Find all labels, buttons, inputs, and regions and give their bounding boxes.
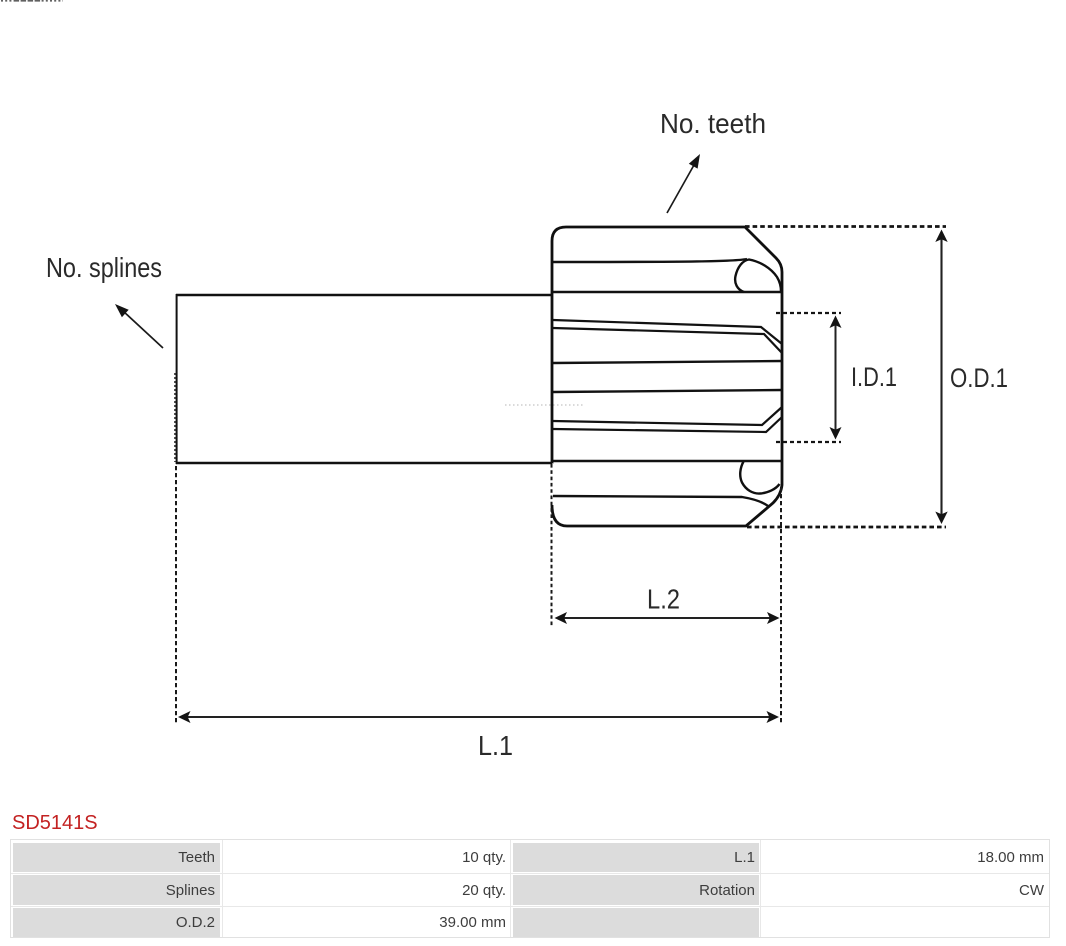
shaft bottom edge xyxy=(176,462,552,464)
bottom tooth face arc xyxy=(740,462,779,494)
top tooth face arc xyxy=(735,260,781,293)
svg-text:No. teeth: No. teeth xyxy=(660,108,766,139)
column separators xyxy=(222,840,223,937)
part number xyxy=(12,812,98,835)
shaft left edge solid xyxy=(176,294,178,464)
row 1 xyxy=(13,843,220,873)
L.2 arrowhead left xyxy=(555,612,568,624)
shaft left edge hidden dotted fringe xyxy=(174,373,176,462)
clipped watermark strip top-left xyxy=(1,0,63,2)
I.D.1 arrowhead bottom xyxy=(830,427,842,440)
L.1 arrowhead right xyxy=(767,711,780,723)
L.2 / L.1 shared extension line right xyxy=(780,487,782,724)
shaft top edge xyxy=(176,294,552,296)
O.D.1 arrowhead top xyxy=(935,230,947,243)
L.1 arrowhead left xyxy=(178,711,191,723)
O.D.1 extension line top xyxy=(745,225,946,228)
row 3 xyxy=(13,908,220,937)
spline groove lower line b xyxy=(553,417,782,432)
spline groove lower line a xyxy=(553,407,782,425)
tooth line t1 xyxy=(553,259,747,262)
tooth line t6 xyxy=(553,496,768,506)
svg-text:L.2: L.2 xyxy=(647,584,680,615)
O.D.1 extension line bottom xyxy=(747,526,946,529)
O.D.1 arrowhead bottom xyxy=(935,512,947,525)
No. teeth leader arrow xyxy=(667,165,694,213)
L.1 extension line left xyxy=(175,466,177,724)
O.D.1 dimension line xyxy=(940,237,942,517)
spline groove upper line a xyxy=(553,320,782,344)
centerline xyxy=(505,404,585,406)
specification table xyxy=(10,839,1050,938)
svg-text:O.D.1: O.D.1 xyxy=(950,363,1008,393)
I.D.1 extension line top xyxy=(776,312,841,314)
tooth line t2 xyxy=(553,291,782,293)
row 2 xyxy=(13,875,220,905)
L.2 extension line left / hidden gear edge xyxy=(551,464,553,626)
L.2 arrowhead right xyxy=(767,612,780,624)
I.D.1 extension line bottom xyxy=(776,441,841,443)
I.D.1 arrowhead top xyxy=(830,316,842,329)
gear body outline xyxy=(552,227,782,526)
svg-text:I.D.1: I.D.1 xyxy=(851,362,897,392)
tooth line t5 xyxy=(553,460,782,462)
L.1 dimension line xyxy=(185,716,772,718)
tooth line t3 xyxy=(553,361,782,363)
No. splines leader arrow xyxy=(123,311,163,348)
spline groove upper line b xyxy=(553,328,782,353)
row separators xyxy=(11,873,1049,874)
I.D.1 dimension line xyxy=(835,322,837,433)
svg-text:L.1: L.1 xyxy=(478,730,513,761)
tooth line t4 xyxy=(553,390,782,392)
L.2 dimension line xyxy=(561,617,773,619)
svg-text:No. splines: No. splines xyxy=(46,252,162,283)
